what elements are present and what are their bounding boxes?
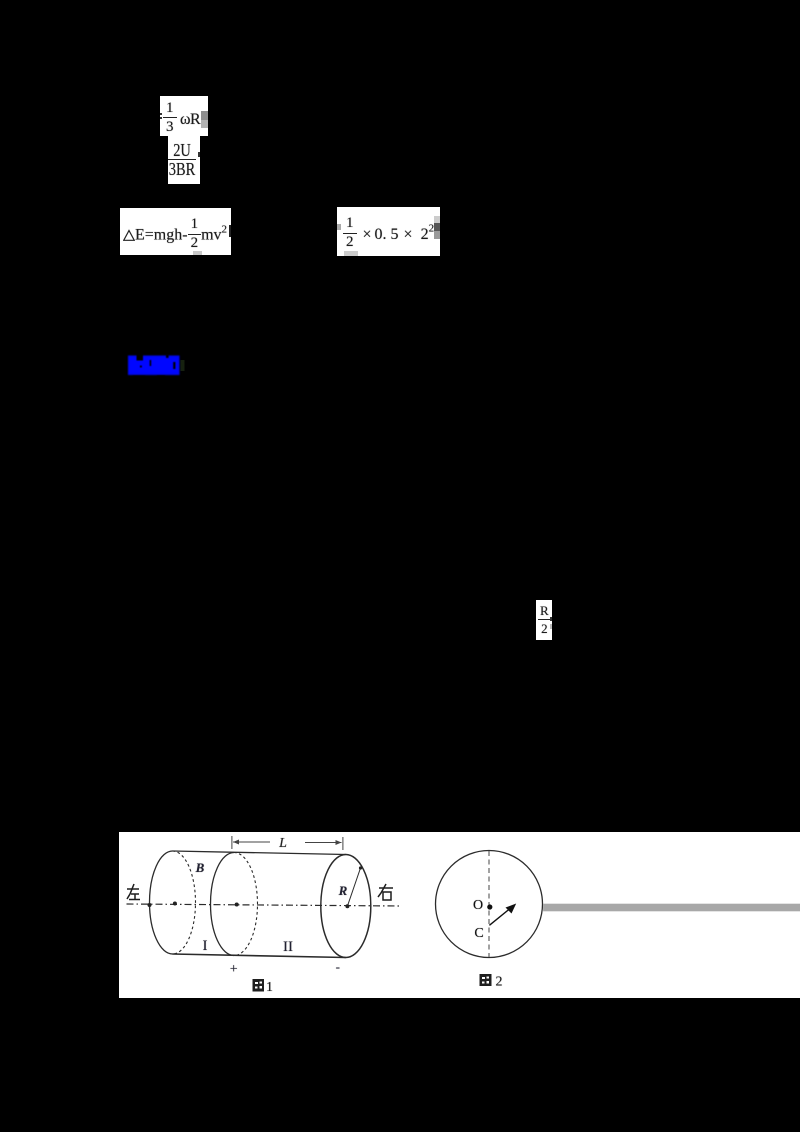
cut equals right edge xyxy=(229,225,231,237)
top notch between bracket and first char xyxy=(137,353,144,361)
formula patch F4: 1/2 x 0.5 x 2^2 = xyxy=(337,207,440,256)
grey artifact squares right edge xyxy=(201,111,208,120)
node dots on axis xyxy=(148,903,152,907)
svg-text:R: R xyxy=(338,883,348,898)
solid blue mass xyxy=(128,356,180,376)
center dot xyxy=(487,904,492,909)
left cap back arc dashed xyxy=(173,851,196,954)
vertical dashed diameter xyxy=(488,851,490,957)
triangle delta xyxy=(123,229,135,241)
cylinder bottom edge xyxy=(173,954,346,958)
formula patch F1: (1/3)ωR xyxy=(160,96,208,136)
big figure image xyxy=(119,832,800,998)
svg-text:+: + xyxy=(230,962,238,977)
middle ellipse solid front arc xyxy=(210,853,234,956)
svg-text:2: 2 xyxy=(496,975,503,990)
arrow from C up-right xyxy=(489,909,510,926)
L dimension xyxy=(232,836,343,850)
svg-text:C: C xyxy=(474,926,483,941)
cut equals at left edge xyxy=(160,113,162,115)
svg-text:II: II xyxy=(283,939,293,955)
small patch R/2 xyxy=(536,600,552,640)
svg-text:-: - xyxy=(336,959,340,974)
R radius line xyxy=(347,868,360,906)
right end cap full ellipse xyxy=(321,855,371,958)
slit between chars xyxy=(150,360,152,366)
formula patch F2: 2U/3BR xyxy=(168,136,200,184)
artifacts xyxy=(337,224,341,230)
formula patch F3: triangle E=mgh-1/2 mv^2 xyxy=(120,208,231,255)
comma artifact right edge xyxy=(198,152,200,157)
svg-text:L: L xyxy=(278,836,287,851)
cylinder left end cap: solid front arc xyxy=(150,851,173,954)
axis dash-dot xyxy=(127,904,403,906)
cylinder top edge xyxy=(173,851,346,855)
faint artifact right xyxy=(181,360,185,371)
svg-text:O: O xyxy=(473,898,483,913)
figure 2 circle xyxy=(436,851,543,958)
caption tu1 xyxy=(253,979,265,992)
grey bar xyxy=(543,904,800,912)
middle ellipse back arc dashed xyxy=(234,853,257,956)
you (right) glyph xyxy=(378,884,393,900)
svg-text:I: I xyxy=(203,938,208,954)
blue annotation 【点评】 drawn as SVG (no CJK font available) xyxy=(127,351,189,379)
caption tu2 xyxy=(480,974,492,986)
svg-text:B: B xyxy=(195,860,205,875)
zuo (left) glyph xyxy=(127,884,140,900)
svg-text:1: 1 xyxy=(266,980,273,995)
grey artifact bottom xyxy=(193,251,202,255)
